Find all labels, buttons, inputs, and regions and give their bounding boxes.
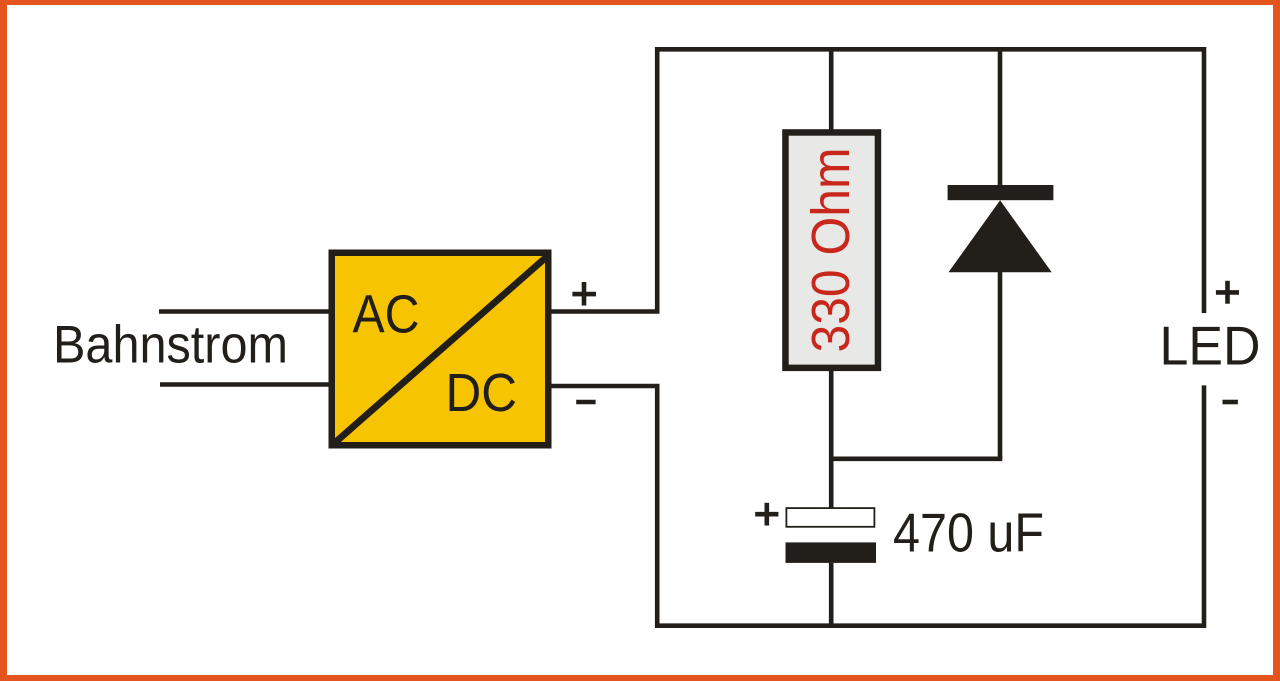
wire resistor bottom	[829, 368, 834, 509]
diode D1	[948, 185, 1054, 272]
capacitor C1 470 uF	[786, 508, 877, 563]
wire diode bottom	[998, 272, 1003, 459]
svg-text:AC: AC	[353, 285, 420, 345]
minus sign LED	[1223, 400, 1238, 405]
wire capacitor bottom	[829, 563, 834, 626]
minus sign converter output	[576, 400, 595, 405]
plus sign converter output	[572, 282, 596, 306]
svg-text:Bahnstrom: Bahnstrom	[53, 316, 288, 375]
converter U1 AC/DC box	[332, 253, 549, 446]
wire junction resistor to diode	[831, 456, 1002, 461]
wire input top	[159, 309, 334, 314]
svg-text:330 Ohm: 330 Ohm	[801, 148, 861, 353]
svg-text:DC: DC	[446, 363, 518, 423]
wire diode top	[998, 49, 1003, 186]
plus sign capacitor	[755, 503, 778, 526]
wire input bottom	[160, 382, 334, 387]
wire resistor top	[829, 49, 834, 132]
wire output plus to top bus and across to LED	[551, 49, 1204, 313]
svg-text:LED: LED	[1160, 315, 1261, 377]
resistor R1 330 Ohm	[785, 132, 878, 367]
svg-text:470 uF: 470 uF	[893, 502, 1044, 564]
plus sign LED	[1216, 281, 1239, 304]
wire output minus to bottom bus and across to LED	[551, 385, 1204, 625]
